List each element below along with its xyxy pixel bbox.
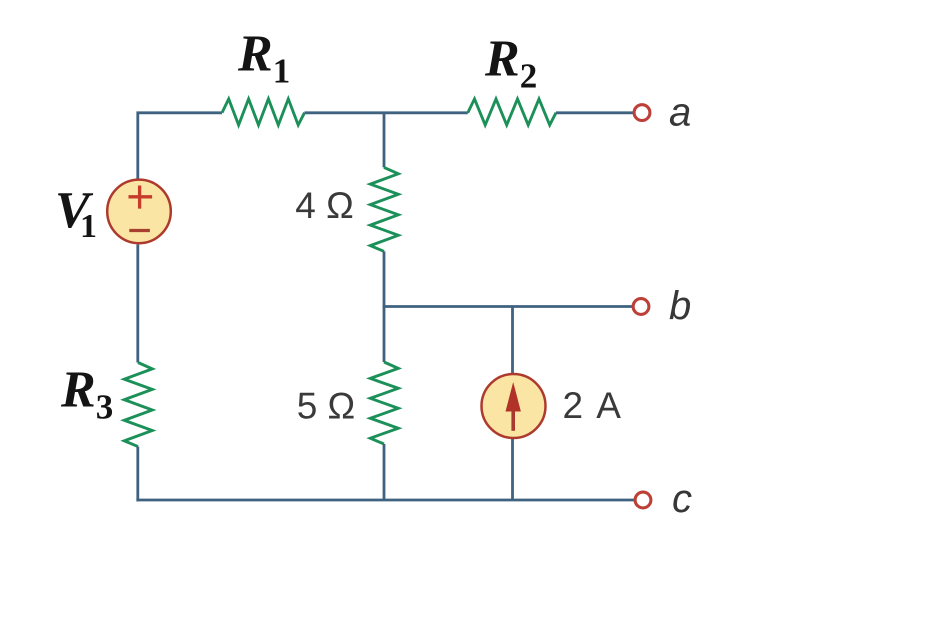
terminal b	[633, 299, 649, 315]
resistor R2	[468, 99, 556, 125]
svg-text:b: b	[669, 284, 691, 328]
svg-text:c: c	[672, 477, 692, 521]
wire top-middle segment	[305, 111, 468, 114]
wire left-bottom segment	[136, 447, 139, 502]
terminal a	[634, 105, 650, 121]
svg-text:5 Ω: 5 Ω	[297, 385, 356, 426]
current source arrow shaft	[511, 405, 515, 431]
wire left-middle (V1 to R3)	[136, 245, 139, 363]
wire top-right segment to terminal a	[556, 111, 634, 114]
svg-text:a: a	[669, 91, 691, 135]
terminal c	[635, 492, 651, 508]
current source circle	[482, 374, 546, 438]
wire node b to terminal b	[383, 305, 633, 308]
resistor R3	[124, 363, 152, 447]
svg-text:4 Ω: 4 Ω	[295, 185, 354, 226]
resistor R1	[222, 99, 305, 125]
wire bottom to terminal c	[136, 499, 634, 502]
wire middle (4-ohm to 5-ohm through node b)	[383, 251, 386, 362]
wire current-source top	[511, 307, 514, 374]
svg-text:V1: V1	[55, 182, 97, 245]
V1 plus sign	[129, 186, 153, 209]
wire middle-top (junction to 4-ohm)	[383, 112, 386, 167]
svg-text:R1: R1	[237, 26, 290, 91]
resistor 5 ohm	[370, 362, 398, 444]
svg-text:A: A	[596, 385, 621, 426]
voltage source V1	[107, 180, 171, 244]
svg-text:R3: R3	[60, 362, 113, 427]
current source I1 (2 A)	[482, 374, 546, 438]
wire top-left segment	[138, 113, 222, 179]
wire current-source bottom	[511, 439, 514, 502]
wire middle-bottom (5-ohm to bottom wire)	[383, 444, 386, 501]
V1 source circle	[107, 180, 171, 244]
current source arrow head	[506, 382, 521, 412]
svg-text:2: 2	[563, 385, 584, 426]
V1 minus sign	[129, 229, 150, 232]
resistor 4 ohm	[370, 167, 398, 251]
svg-text:R2: R2	[484, 31, 537, 96]
